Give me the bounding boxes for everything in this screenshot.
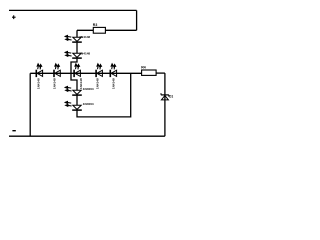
wire top positive rail [9,9,137,11]
diode D8 (lower string, top) [65,86,94,95]
svg-text:1N4004: 1N4004 [83,87,94,91]
LED D5 (row, rightmost) [110,64,116,89]
LED D1 (row, leftmost) [36,64,42,89]
svg-text:1N4148: 1N4148 [79,51,90,55]
wire lower string inter-diode lead [76,95,78,105]
LED D2 (row) [53,64,61,89]
wire lower string top jog from row node [71,73,77,90]
wire right riser [164,73,166,136]
svg-text:1N4148: 1N4148 [37,78,41,89]
wire bottom negative rail [9,135,165,137]
wire upper string inter-diode lead [76,43,78,54]
resistor R4 [141,65,156,75]
svg-text:1N4148: 1N4148 [53,78,57,89]
resistor R3 [93,23,106,33]
LED D4 (row) [96,64,103,89]
svg-text:R4: R4 [141,65,146,69]
diode D9 (lower string, bottom) [65,101,94,110]
zener diode D10 [161,93,174,100]
wire lower string bottom return loop [77,73,131,117]
wire top-right drop to R3 [136,10,138,30]
LED D6 (upper string, top) [65,35,90,42]
wire R3 left lead [77,29,93,31]
LED D3 (row, center) [74,64,83,89]
label minus terminal [12,130,15,132]
wire main horizontal row [30,72,141,74]
wire R3 right lead [105,29,136,31]
svg-text:1N4148: 1N4148 [96,78,100,89]
svg-text:1N4004: 1N4004 [83,102,94,106]
label plus terminal [12,15,16,19]
wire left drop [29,73,31,136]
wire R4 right lead [156,72,165,74]
svg-text:1N4148: 1N4148 [79,35,90,39]
wire upper string top lead [76,30,78,37]
wire upper string bottom jog to row node [71,59,77,74]
svg-text:R3: R3 [93,23,98,27]
svg-text:D1: D1 [169,94,173,98]
svg-text:1N4148: 1N4148 [111,78,115,89]
LED D7 (upper string, bottom) [65,51,90,58]
